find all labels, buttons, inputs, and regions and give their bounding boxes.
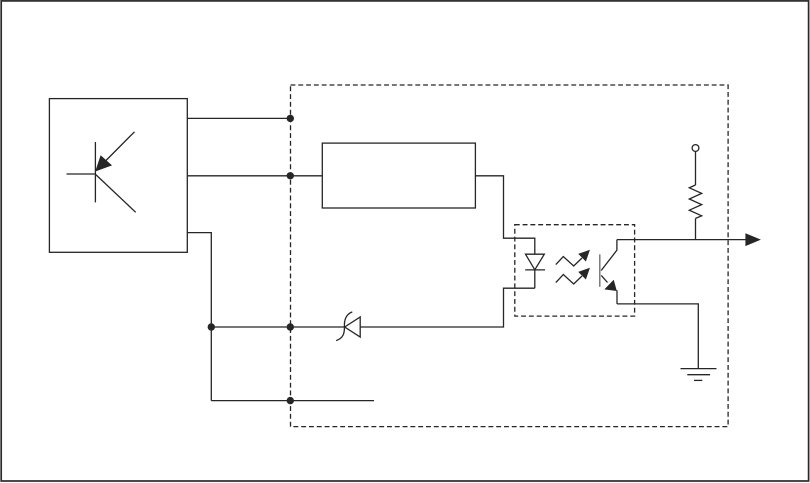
wire: emitter to ground	[617, 304, 698, 369]
junction node top	[287, 115, 294, 122]
wire: box to input resistor block	[187, 175, 322, 177]
resistor R	[689, 185, 701, 218]
junction node bottom	[287, 397, 294, 404]
sensor symbol upper diagonal with arrow	[96, 132, 134, 171]
PLC input module dashed box	[291, 85, 729, 427]
optocoupler dashed box	[515, 225, 635, 316]
sensor symbol horizontal lead	[67, 173, 96, 175]
light arrow upper	[556, 251, 589, 266]
wire: resistor to output line	[695, 218, 697, 239]
light arrow lower	[556, 269, 589, 284]
junction node left common	[208, 323, 215, 330]
wire: diode to LED cathode	[360, 288, 535, 327]
sensor symbol lower diagonal	[96, 175, 136, 213]
wire: block output to LED anode	[475, 176, 534, 254]
optocoupler LED	[525, 254, 545, 288]
wire: box to top terminal node	[187, 117, 290, 119]
wire: collector output line	[617, 239, 747, 241]
input impedance block	[322, 143, 475, 208]
wire: common horizontal to diode	[211, 326, 344, 328]
sensor symbol vertical bar	[94, 142, 96, 202]
ground	[681, 369, 717, 381]
wire: box lower lead going right then down	[187, 233, 211, 401]
junction node middle	[287, 172, 294, 179]
junction node common on dashed border	[287, 323, 294, 330]
wire: terminal to resistor	[695, 151, 697, 185]
wire: bottom common stub	[211, 400, 374, 402]
optocoupler phototransistor	[600, 240, 617, 304]
zener diode D1	[336, 312, 360, 341]
terminal circle	[692, 145, 699, 152]
input device box	[49, 99, 187, 253]
output arrow	[745, 233, 761, 246]
